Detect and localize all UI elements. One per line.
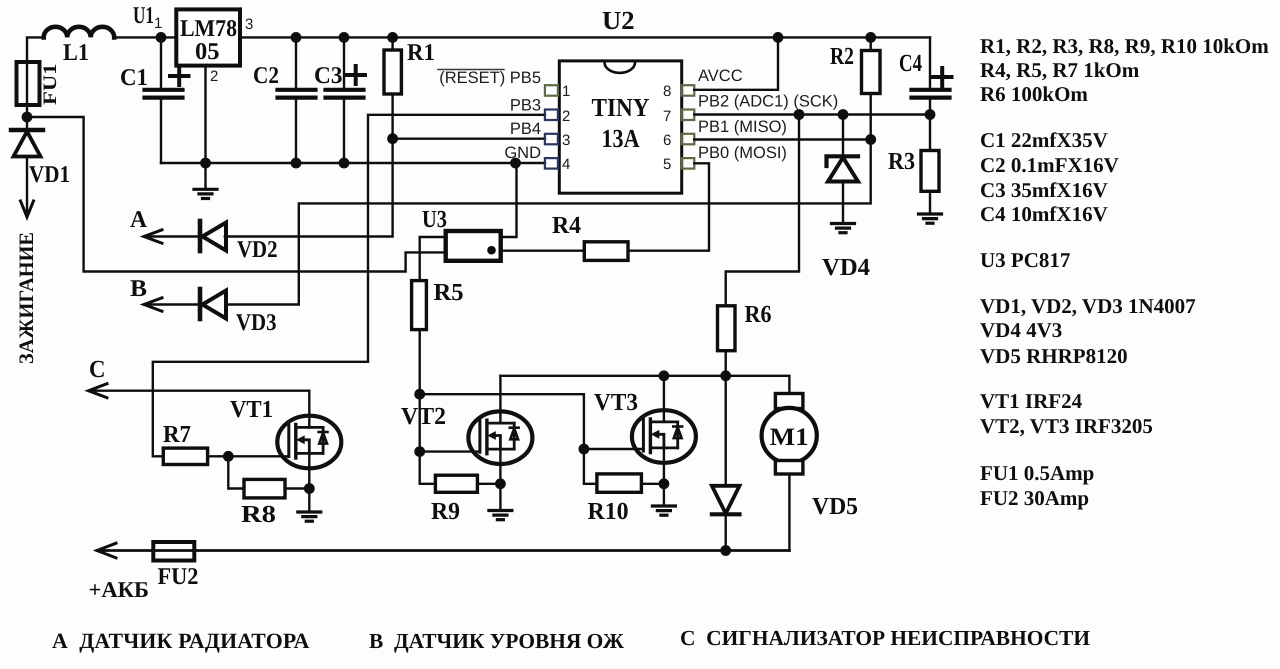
- svg-text:VT1 IRF24: VT1 IRF24: [980, 389, 1083, 413]
- wire ground rail: [161, 162, 545, 164]
- label PB0 MOSI: [698, 144, 787, 162]
- ground under VT2: [489, 511, 512, 520]
- wire VT2 source to ground: [499, 449, 501, 510]
- svg-text:B: B: [130, 276, 147, 302]
- node VT3 gate: [579, 444, 590, 455]
- wire U3 collector to gnd rail: [501, 163, 517, 237]
- svg-text:FU2: FU2: [158, 564, 199, 590]
- diode VD5: [712, 376, 858, 551]
- motor M1: [762, 394, 817, 551]
- capacitor C1: [120, 37, 189, 163]
- svg-text:С СИГНАЛИЗАТОР НЕИСПРАВНОСТИ: С СИГНАЛИЗАТОР НЕИСПРАВНОСТИ: [680, 626, 1090, 650]
- svg-text:А ДАТЧИК РАДИАТОРА: А ДАТЧИК РАДИАТОРА: [52, 629, 310, 653]
- node C2 top: [291, 32, 302, 43]
- svg-text:M1: M1: [770, 424, 809, 451]
- resistor R6: [718, 301, 772, 376]
- node C2 bottom: [291, 158, 302, 169]
- fuse FU2: [153, 542, 198, 590]
- svg-text:VT2: VT2: [401, 403, 446, 430]
- svg-text:VD5: VD5: [812, 493, 858, 520]
- svg-text:R1, R2, R3, R8, R9, R10 10kOm: R1, R2, R3, R8, R9, R10 10kOm: [980, 34, 1269, 58]
- svg-text:1: 1: [154, 15, 162, 32]
- wire VD1 to arrow: [21, 157, 34, 218]
- zener diode VD4: [822, 115, 870, 282]
- wire top rail from U1 pin3 to C4: [240, 36, 930, 38]
- node ignition junction: [22, 112, 33, 123]
- svg-text:(RESET) PB5: (RESET) PB5: [439, 69, 541, 87]
- label PB3: [510, 97, 541, 115]
- node R7 R8 junction: [223, 451, 234, 462]
- svg-text:В ДАТЧИК УРОВНЯ ОЖ: В ДАТЧИК УРОВНЯ ОЖ: [369, 629, 625, 653]
- label PB2 ADC1 SCK: [698, 93, 838, 111]
- parts list capacitors: [980, 128, 1119, 226]
- pin 4 square: [545, 156, 570, 173]
- parts list diodes: [980, 294, 1196, 368]
- label ignition vertical: [16, 232, 38, 364]
- parts list transistors: [980, 389, 1153, 438]
- node U3 gnd rail: [510, 158, 521, 169]
- wire pin7 MISO line: [694, 113, 930, 115]
- resistor R7: [163, 421, 289, 465]
- svg-text:3: 3: [562, 132, 570, 149]
- node VT3 drain: [659, 370, 670, 381]
- svg-text:R7: R7: [163, 421, 191, 448]
- pin 5 square: [663, 156, 694, 173]
- svg-text:U3 PC817: U3 PC817: [980, 248, 1070, 272]
- wire VT2 gate: [420, 450, 480, 452]
- pin 2 square: [545, 108, 570, 125]
- wire drain bus VT2 VT3 M1: [500, 376, 789, 394]
- wire branch to VT3 gate: [420, 394, 584, 449]
- node AVCC riser: [773, 32, 784, 43]
- svg-text:R4: R4: [552, 212, 581, 239]
- svg-text:FU1 0.5Amp: FU1 0.5Amp: [980, 461, 1094, 485]
- svg-text:VD3: VD3: [236, 310, 277, 336]
- wire L1 to U1: [114, 36, 176, 38]
- resistor R9: [431, 475, 500, 525]
- svg-text:1: 1: [562, 83, 570, 100]
- svg-text:VT2, VT3 IRF3205: VT2, VT3 IRF3205: [980, 414, 1153, 438]
- node R2 top: [865, 32, 876, 43]
- node C4 R3 on MISO: [925, 109, 936, 120]
- node VD4 on MISO: [838, 109, 849, 120]
- svg-text:3: 3: [245, 16, 253, 33]
- svg-text:R4, R5, R7 1kOm: R4, R5, R7 1kOm: [980, 58, 1140, 82]
- svg-text:R5: R5: [434, 279, 464, 306]
- resistor R5: [412, 279, 464, 330]
- svg-text:A: A: [130, 207, 148, 233]
- capacitor C3: [314, 37, 365, 163]
- voltage regulator U1 LM7805: [133, 3, 253, 85]
- wire VT2 drain: [499, 376, 501, 423]
- parts list resistors: [980, 34, 1269, 106]
- node R2 bottom MOSI: [865, 134, 876, 145]
- diode VD1: [11, 130, 70, 188]
- pin 1 square: [545, 83, 570, 100]
- ground under R3: [919, 214, 942, 223]
- node VT3 source R10: [659, 478, 670, 489]
- svg-text:VD2: VD2: [237, 237, 278, 263]
- caption C: [680, 626, 1090, 650]
- svg-text:2: 2: [562, 108, 570, 125]
- label RESET PB5: [438, 69, 541, 87]
- svg-text:C: C: [89, 356, 106, 383]
- svg-text:VT1: VT1: [230, 396, 273, 423]
- resistor R2: [830, 37, 880, 139]
- transistor VT2: [401, 403, 532, 464]
- wire pin5 to R4: [628, 163, 709, 250]
- resistor R10: [584, 449, 664, 525]
- label PB4: [510, 120, 541, 138]
- svg-text:PB1 (MISO): PB1 (MISO): [698, 118, 787, 136]
- wire pin6 MOSI line: [694, 138, 870, 140]
- capacitor C4: [899, 37, 952, 114]
- svg-text:7: 7: [663, 108, 671, 125]
- wire bottom battery bus: [97, 543, 789, 558]
- wire ignition branch to U3 LED anode: [27, 117, 446, 272]
- wire VT3 gate: [584, 448, 644, 450]
- svg-text:8: 8: [663, 83, 671, 100]
- wire PB3 pin2 line: [153, 115, 545, 457]
- svg-text:4: 4: [562, 156, 570, 173]
- wire PB4 pin3 line: [393, 137, 545, 139]
- svg-text:VD4: VD4: [822, 254, 870, 281]
- svg-text:+АКБ: +АКБ: [89, 577, 150, 602]
- svg-text:C1 22mfX35V: C1 22mfX35V: [980, 128, 1108, 152]
- label PB1 MISO: [698, 118, 787, 136]
- node C3 bottom: [339, 158, 350, 169]
- node R6 VD5: [720, 370, 731, 381]
- wire R1 bottom to VD2 line: [225, 94, 393, 237]
- ground under U1 pin2: [194, 163, 217, 199]
- svg-text:VD1: VD1: [29, 162, 70, 188]
- svg-text:R8: R8: [241, 501, 276, 528]
- wire R5 to VT2 gate: [420, 330, 436, 484]
- svg-text:TINY: TINY: [592, 93, 650, 122]
- svg-text:C3 35mfX16V: C3 35mfX16V: [980, 178, 1108, 202]
- node VT2 gate: [414, 446, 425, 457]
- svg-text:GND: GND: [504, 144, 541, 162]
- wire C arrow to VT1 drain: [89, 356, 310, 427]
- svg-text:AVCC: AVCC: [698, 67, 743, 85]
- svg-text:C2 0.1mFX16V: C2 0.1mFX16V: [980, 153, 1119, 177]
- svg-text:FU1: FU1: [40, 64, 61, 106]
- svg-text:C3: C3: [314, 63, 343, 89]
- svg-text:R9: R9: [431, 498, 460, 525]
- pin 3 square: [545, 132, 570, 149]
- fuse FU1: [17, 62, 62, 105]
- svg-text:U1: U1: [133, 3, 154, 29]
- node VT2 source R9: [495, 478, 506, 489]
- node VD5 anode bus: [720, 545, 731, 556]
- resistor R1: [384, 37, 435, 94]
- svg-text:PB2 (ADC1) (SCK): PB2 (ADC1) (SCK): [698, 93, 838, 111]
- svg-text:R2: R2: [830, 43, 854, 70]
- svg-text:VD1, VD2, VD3 1N4007: VD1, VD2, VD3 1N4007: [980, 294, 1196, 318]
- svg-text:R6 100kOm: R6 100kOm: [980, 82, 1088, 106]
- svg-text:C1: C1: [120, 65, 148, 91]
- wire VD3 to PB0 long line: [226, 140, 871, 305]
- transistor VT1: [230, 396, 341, 468]
- svg-text:R1: R1: [407, 40, 435, 66]
- pin 7 square: [663, 108, 694, 125]
- wire top rail left segment: [27, 37, 44, 62]
- svg-text:2: 2: [210, 68, 218, 85]
- pin 8 square: [663, 83, 694, 100]
- caption A: [52, 629, 310, 653]
- label GND: [504, 144, 541, 162]
- parts list U3: [980, 248, 1070, 272]
- wire R6 riser: [726, 115, 799, 306]
- transistor VT3: [594, 389, 696, 463]
- node R1 PB4 junction: [387, 133, 398, 144]
- wire U3 LED cathode to R5: [420, 237, 446, 281]
- pin 6 square: [663, 132, 694, 149]
- ground under VD4: [832, 224, 855, 233]
- svg-text:L1: L1: [63, 40, 89, 66]
- svg-text:VT3: VT3: [594, 389, 638, 416]
- svg-text:U3: U3: [422, 206, 447, 233]
- svg-text:5: 5: [663, 156, 671, 173]
- ground under VT3: [652, 506, 675, 515]
- svg-text:R6: R6: [745, 301, 772, 328]
- node U1 pin2 ground: [200, 158, 211, 169]
- svg-text:FU2 30Amp: FU2 30Amp: [980, 486, 1089, 510]
- resistor R3: [888, 115, 939, 215]
- svg-text:VD5 RHRP8120: VD5 RHRP8120: [980, 344, 1128, 368]
- label AVCC: [698, 67, 743, 85]
- wire VT1 source to ground: [308, 453, 310, 512]
- svg-text:ЗАЖИГАНИЕ: ЗАЖИГАНИЕ: [16, 232, 38, 364]
- node pin1 U1 / C1 tap: [156, 32, 167, 43]
- svg-text:U2: U2: [602, 6, 635, 35]
- svg-text:6: 6: [663, 132, 671, 149]
- capacitor C2: [253, 37, 316, 163]
- parts list fuses: [980, 461, 1094, 510]
- label +AKB: [89, 577, 150, 602]
- wire pin8 AVCC to rail: [694, 37, 778, 89]
- wire U1 pin2 down: [204, 66, 206, 163]
- svg-text:PB3: PB3: [510, 97, 541, 115]
- resistor R4: [501, 212, 628, 260]
- wire FU1 to node: [26, 105, 28, 130]
- svg-text:C2: C2: [253, 63, 279, 89]
- optocoupler U3: [422, 206, 501, 261]
- svg-text:VD4 4V3: VD4 4V3: [980, 318, 1062, 342]
- inductor L1: [44, 27, 115, 66]
- node R6 riser on MISO: [794, 109, 805, 120]
- node R1 top: [387, 32, 398, 43]
- diode VD2: [130, 207, 278, 263]
- caption B: [369, 629, 625, 653]
- svg-text:PB4: PB4: [510, 120, 541, 138]
- svg-text:05: 05: [195, 39, 220, 65]
- ground under VT1: [298, 512, 321, 521]
- node VT3 gate branch: [414, 389, 425, 400]
- wire VT3 drain: [663, 376, 665, 422]
- svg-text:PB0 (MOSI): PB0 (MOSI): [698, 144, 787, 162]
- svg-text:C4: C4: [899, 50, 922, 77]
- resistor R8: [228, 456, 309, 528]
- svg-text:13A: 13A: [602, 124, 640, 153]
- microcontroller U2 TINY13A: [559, 6, 681, 193]
- node VT1 source R8: [304, 483, 315, 494]
- svg-text:R3: R3: [888, 148, 915, 175]
- diode VD3: [130, 276, 277, 336]
- svg-text:C4 10mfX16V: C4 10mfX16V: [980, 202, 1108, 226]
- svg-text:R10: R10: [588, 498, 629, 525]
- node C3 top: [339, 32, 350, 43]
- wire VT3 source to ground: [663, 448, 665, 506]
